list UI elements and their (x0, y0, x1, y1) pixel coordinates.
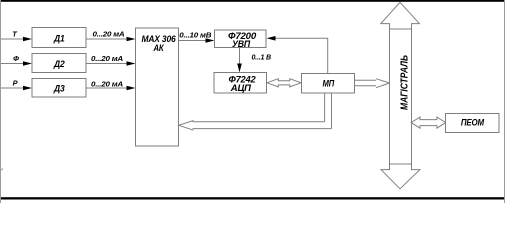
svg-text:АЦП: АЦП (230, 83, 252, 93)
left edge tick (0, 169, 3, 172)
computer PEOM (446, 114, 500, 133)
double arrow ADC-MP (267, 79, 301, 87)
arrowhead F into D2 (23, 61, 32, 66)
arrowhead P into D3 (23, 86, 32, 91)
svg-text:0...20 мА: 0...20 мА (91, 54, 123, 63)
arrowhead T into D1 (23, 37, 32, 42)
svg-text:Ф: Ф (13, 54, 19, 63)
sensor D3 (32, 79, 86, 98)
hollow arrow MP to magistral (355, 79, 390, 88)
wire MAX306 to UVP (179, 40, 208, 42)
svg-text:0...10 мВ: 0...10 мВ (179, 31, 212, 40)
microprocessor MP (302, 74, 355, 94)
border right line (504, 0, 505, 203)
wire MP feedback to UVP (274, 38, 328, 73)
border top bar (0, 0, 505, 2)
bus magistral vertical arrow (381, 2, 420, 189)
border bottom bar (0, 197, 505, 199)
arrowhead into UVP (206, 38, 215, 43)
arrowhead into MAX306 row3 (127, 86, 136, 91)
wire D3 to MAX306 (86, 87, 128, 89)
svg-text:ПЕОМ: ПЕОМ (461, 118, 485, 128)
arrowhead feedback into UVP (267, 36, 276, 41)
wire D2 to MAX306 (86, 63, 128, 65)
amplifier F7200 UVP (215, 30, 267, 49)
svg-text:0...20 мА: 0...20 мА (91, 79, 123, 88)
svg-text:МП: МП (323, 78, 335, 88)
hollow arrow MP to MAX306 (179, 93, 332, 130)
svg-text:Д3: Д3 (53, 83, 65, 93)
multiplexer MAX306 AK (136, 28, 179, 146)
sensor D2 (32, 54, 86, 73)
double arrow magistral-PEOM (411, 117, 446, 128)
svg-text:УВП: УВП (232, 39, 251, 49)
svg-text:Д2: Д2 (53, 59, 65, 69)
wire T input (1, 38, 24, 40)
arrowhead into ADC (237, 64, 242, 73)
svg-text:0...1 В: 0...1 В (251, 52, 271, 61)
svg-text:АК: АК (153, 43, 165, 53)
arrowhead into MAX306 row1 (127, 37, 136, 42)
arrowhead into MAX306 row2 (127, 61, 136, 66)
svg-text:Д1: Д1 (53, 33, 65, 43)
border left line (0, 0, 2, 203)
svg-text:МАГІСТРАЛЬ: МАГІСТРАЛЬ (400, 55, 411, 110)
ADC F7242 (214, 73, 267, 94)
svg-text:0...20 мА: 0...20 мА (93, 29, 125, 38)
wire F input (1, 63, 24, 65)
sensor D1 (32, 28, 86, 48)
wire D1 to MAX306 (86, 38, 128, 40)
wire UVP to ADC (239, 48, 241, 66)
wire P input (1, 87, 24, 89)
